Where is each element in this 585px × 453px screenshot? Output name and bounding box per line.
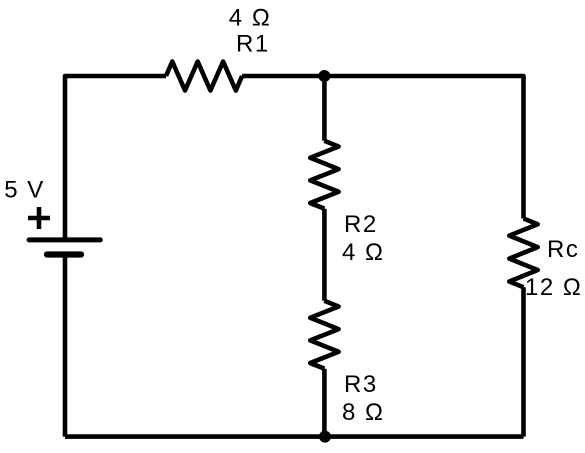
resistor Rc [509, 219, 537, 288]
resistor R2 [310, 141, 338, 209]
svg-text:Rc: Rc [547, 236, 579, 263]
resistor R1 [166, 62, 242, 91]
plus sign [28, 207, 50, 229]
wire top from R1 through node to top-right corner, down to Rc [242, 76, 523, 219]
wire right bottom (Rc down to bottom-right corner) [521, 287, 526, 436]
node dot bottom junction [319, 431, 331, 443]
svg-text:R2: R2 [344, 211, 378, 238]
battery V1 short plate (-) [47, 251, 81, 257]
svg-text:4 Ω: 4 Ω [229, 5, 271, 32]
svg-text:12 Ω: 12 Ω [525, 274, 582, 301]
wire middle branch bottom (R3 to bottom node) [322, 369, 327, 437]
wire bottom (bottom rail) [65, 434, 524, 439]
wire between R2 and R3 [322, 209, 327, 301]
svg-text:5 V: 5 V [4, 176, 45, 203]
svg-text:8 Ω: 8 Ω [342, 399, 384, 426]
svg-text:R3: R3 [344, 371, 378, 398]
node dot top junction [318, 70, 330, 82]
wire left bottom (battery - terminal down to bottom rail) [63, 255, 68, 437]
resistor R3 [310, 301, 338, 369]
svg-text:4 Ω: 4 Ω [342, 239, 384, 266]
wire top-left (battery + terminal up and across to R1) [65, 76, 166, 240]
battery V1 long plate (+) [29, 237, 100, 242]
wire middle branch top (node to R2) [322, 76, 327, 141]
svg-text:R1: R1 [236, 30, 270, 57]
